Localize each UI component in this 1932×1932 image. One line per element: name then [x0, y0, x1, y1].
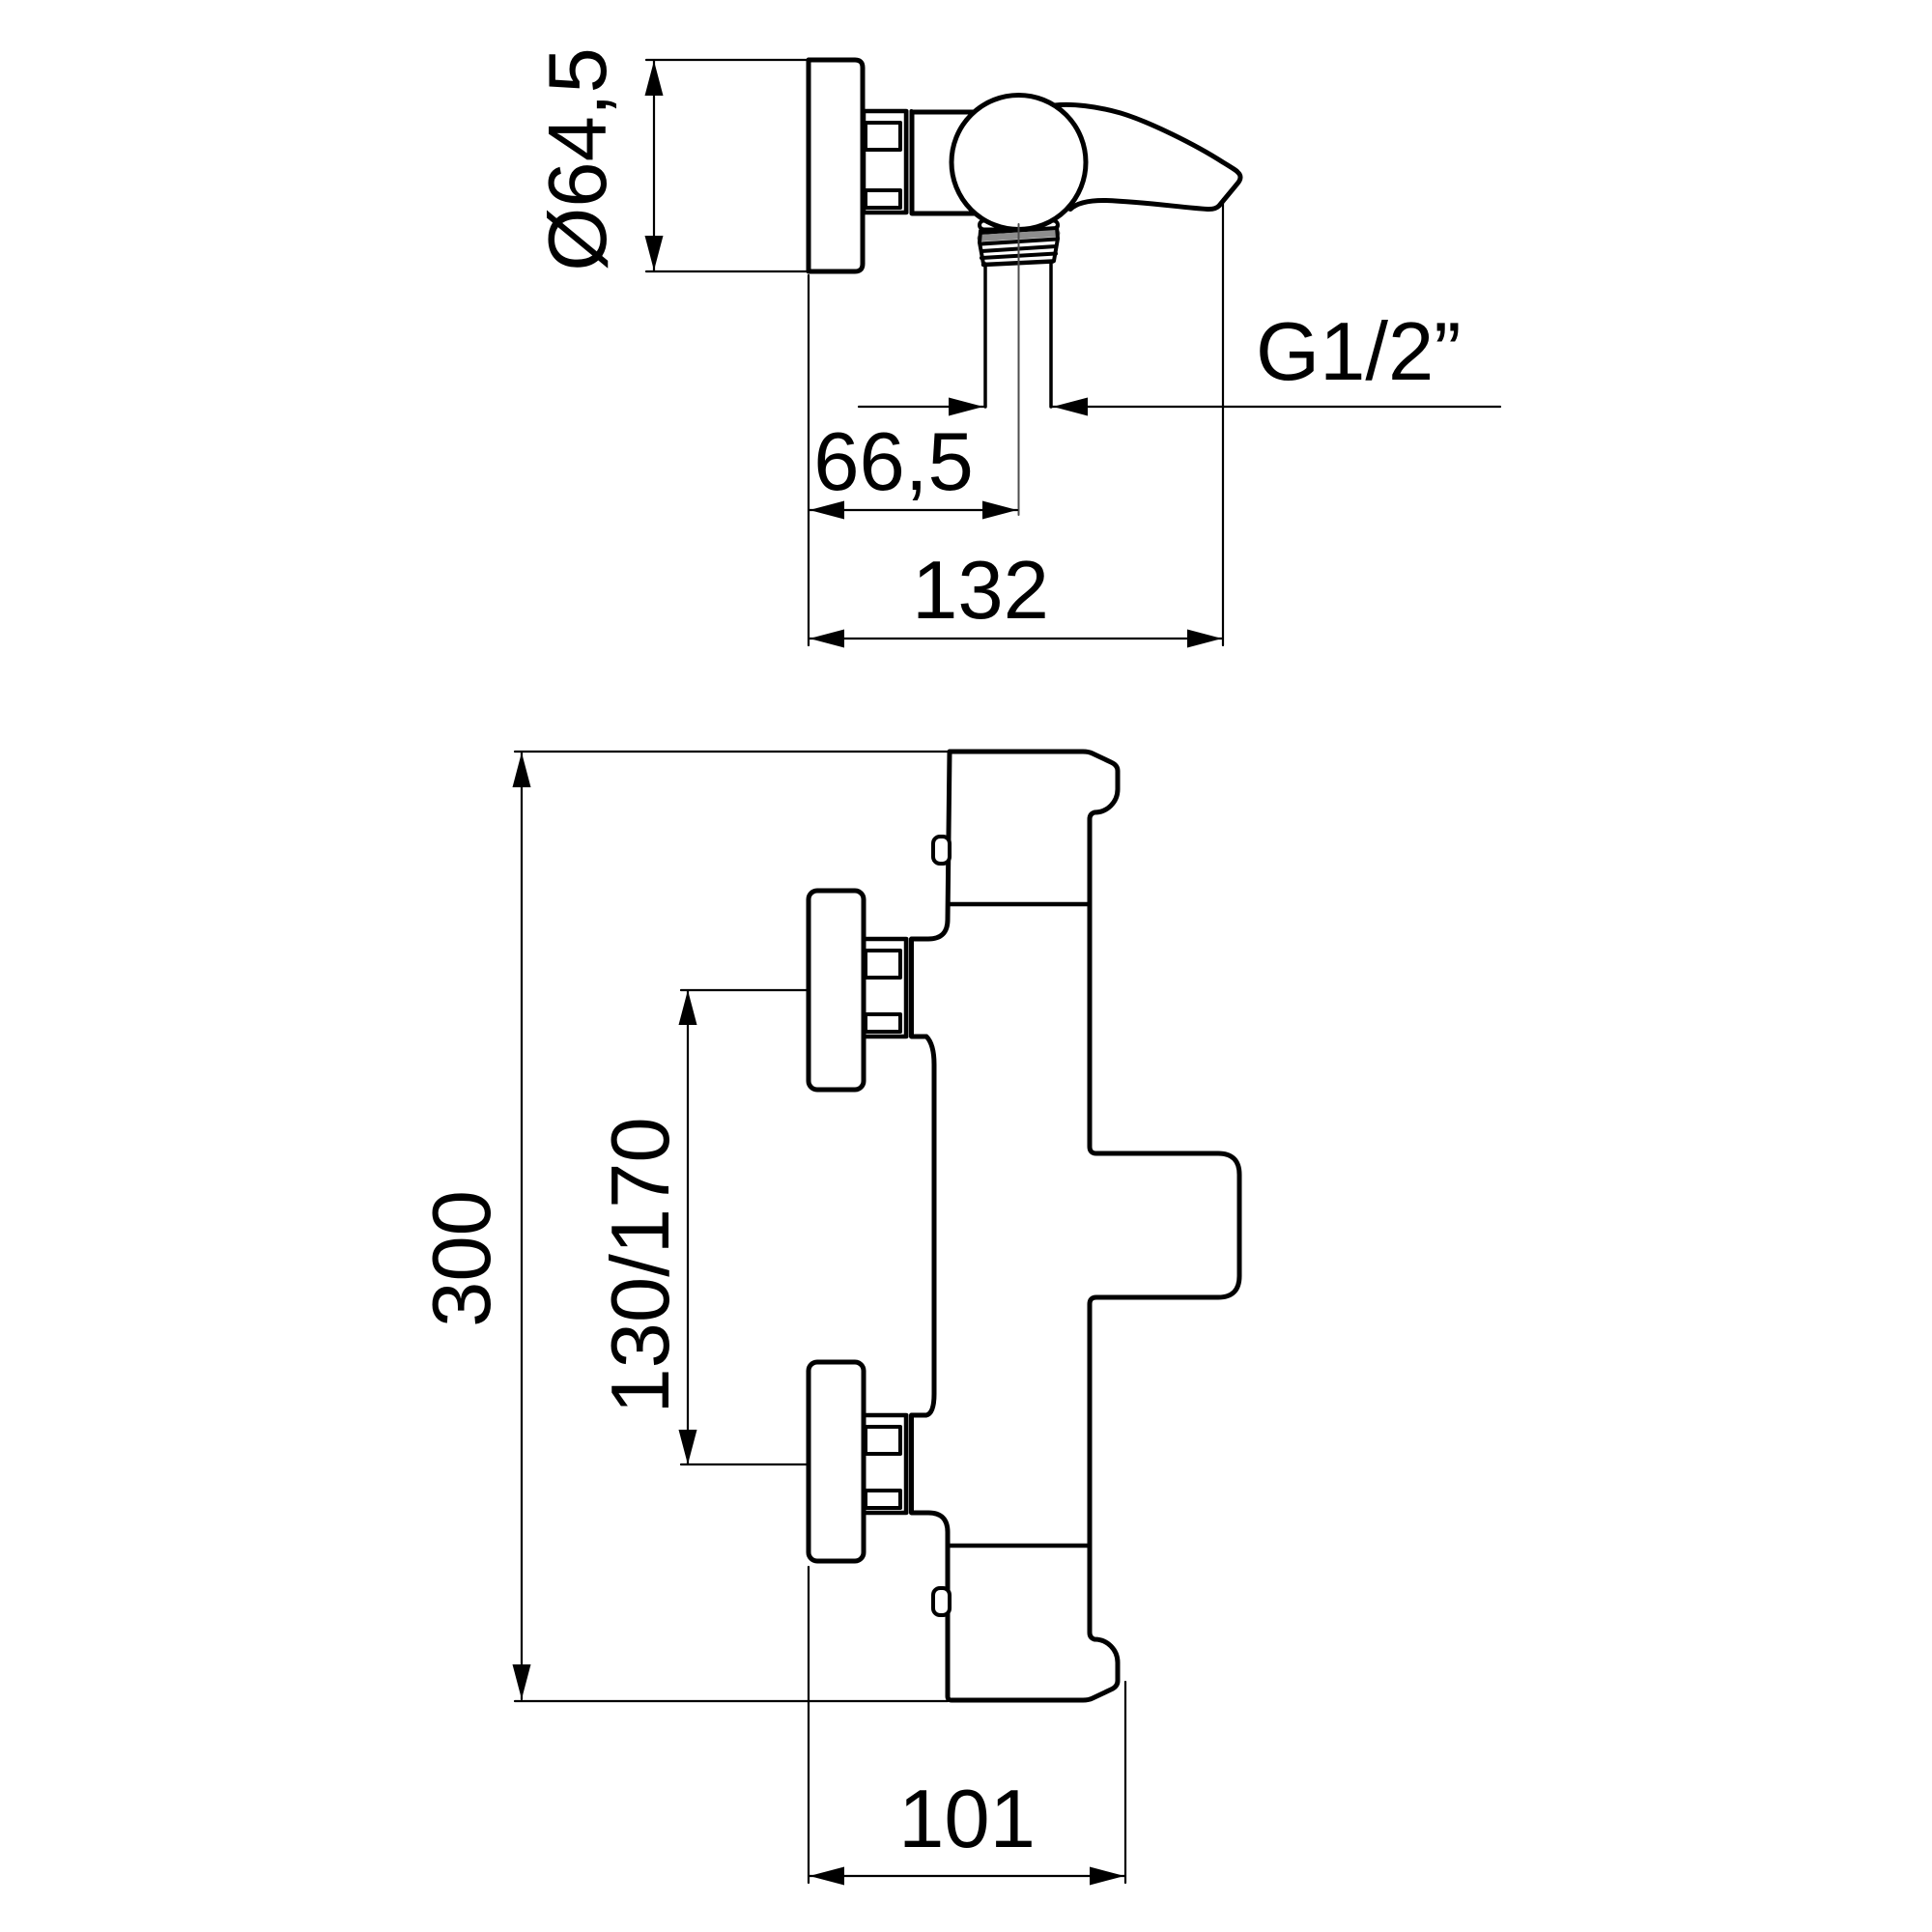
extension line 101 right	[1124, 1682, 1126, 1883]
threads G1/2 below valve	[980, 221, 1058, 266]
dimension line 300	[521, 753, 523, 1699]
dimension line 101	[810, 1875, 1124, 1877]
extension line top of Ø64,5	[646, 59, 809, 61]
lower nut flat 1	[866, 1427, 900, 1454]
arrowhead G1/2 pointing left	[1053, 398, 1088, 416]
dimension line 130/170	[687, 991, 689, 1463]
pipe nipple (top view)	[983, 264, 987, 407]
dimension line 132	[810, 638, 1222, 639]
seam line lower cap	[948, 1544, 1088, 1548]
upper union nut (side view)	[864, 939, 906, 1037]
handle lever (top view)	[1055, 104, 1240, 209]
lower escutcheon (side view)	[809, 1362, 864, 1561]
lower union nut (side view)	[864, 1415, 906, 1513]
svg-text:66,5: 66,5	[813, 416, 973, 508]
arrowhead G1/2 pointing right	[949, 398, 983, 416]
upper joint face lines	[905, 939, 909, 1037]
arrowhead 101 left	[810, 1867, 844, 1886]
extension line 130/170 bottom	[681, 1463, 809, 1465]
nut flat lower (top view)	[866, 190, 900, 208]
pipe centreline	[1018, 224, 1020, 515]
union nut (top view)	[864, 111, 906, 213]
valve body (top view)	[912, 112, 976, 213]
lower joint face lines	[905, 1415, 909, 1513]
arrowhead 66,5 left	[810, 501, 844, 520]
extension line bottom of Ø64,5	[646, 270, 809, 272]
upper nut flat 1	[866, 951, 900, 978]
lower nut flat 2	[866, 1491, 900, 1508]
arrowhead Ø64,5 up	[645, 61, 664, 96]
G1/2 dimension leader right part	[1053, 406, 1500, 408]
svg-text:132: 132	[912, 545, 1049, 637]
arrowhead 300 up	[513, 753, 531, 787]
arrowhead 101 right	[1090, 1867, 1124, 1886]
dimension line 66,5	[810, 509, 1017, 511]
arrowhead 132 right	[1187, 630, 1222, 648]
control knob circle (top view)	[952, 96, 1086, 230]
nut flat upper (top view)	[866, 123, 900, 150]
svg-text:130/170: 130/170	[595, 1117, 687, 1413]
extension line 300 bottom	[515, 1700, 948, 1702]
G1/2 dimension leader left part	[859, 406, 983, 408]
arrowhead 300 down	[513, 1664, 531, 1699]
extension line left (plate edge) top view	[808, 275, 810, 645]
upper nut flat 2	[866, 1014, 900, 1032]
arrowhead 130/170 up	[679, 990, 697, 1025]
mixer body outline (side view)	[912, 752, 1240, 1700]
svg-text:G1/2”: G1/2”	[1256, 306, 1462, 398]
arrowhead 66,5 right	[982, 501, 1017, 520]
nub on lower left edge	[933, 1588, 950, 1615]
joint face lines (top view)	[905, 111, 909, 213]
upper escutcheon (side view)	[809, 891, 864, 1090]
dimension line Ø64,5	[653, 61, 655, 270]
arrowhead 130/170 down	[679, 1430, 697, 1464]
extension line 300 top	[515, 751, 950, 753]
svg-text:Ø64,5: Ø64,5	[532, 47, 624, 271]
nub on upper left edge	[933, 837, 950, 864]
arrowhead 132 left	[810, 630, 844, 648]
extension line right (handle tip) top view	[1222, 199, 1224, 645]
svg-text:300: 300	[416, 1190, 508, 1327]
extension line 130/170 top	[681, 989, 809, 991]
wall plate (top view)	[809, 60, 863, 271]
extension line 101 left	[808, 1567, 810, 1883]
svg-text:101: 101	[898, 1774, 1036, 1865]
seam line upper cap	[950, 902, 1090, 907]
arrowhead Ø64,5 down	[645, 236, 664, 270]
